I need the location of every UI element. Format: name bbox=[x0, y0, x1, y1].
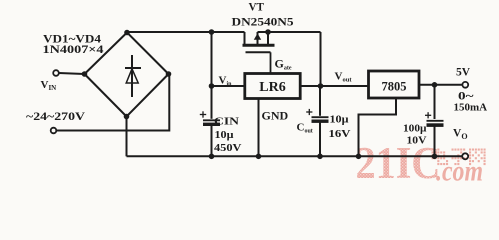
svg-text:1N4007×4: 1N4007×4 bbox=[43, 44, 104, 56]
svg-text:10μ: 10μ bbox=[330, 114, 350, 126]
terminal Vin upper bbox=[53, 70, 59, 76]
svg-text:DN2540N5: DN2540N5 bbox=[232, 17, 294, 29]
node Vout bbox=[318, 83, 324, 89]
node left vertex bbox=[82, 71, 88, 77]
svg-text:7805: 7805 bbox=[382, 80, 407, 94]
diode symbol inside bridge bbox=[125, 55, 141, 97]
svg-text:VT: VT bbox=[249, 2, 265, 14]
node right vertex bbox=[166, 71, 172, 77]
node bottom vertex bbox=[124, 114, 130, 120]
svg-text:10μ: 10μ bbox=[215, 129, 235, 141]
terminal output V0 bbox=[462, 153, 468, 159]
op-amp/regulator U1 LR6 box bbox=[245, 74, 300, 99]
wire bridge negative drop bbox=[126, 117, 128, 157]
watermark 21IC bbox=[356, 138, 441, 188]
wire top rail left bbox=[127, 31, 245, 33]
wire ground bus bbox=[127, 155, 463, 157]
watermark .com bbox=[436, 155, 483, 188]
node gnd LR6 bbox=[256, 154, 262, 160]
wire CIN vertical lower bbox=[211, 126, 213, 157]
node gnd 7805 bbox=[356, 154, 362, 160]
svg-text:16V: 16V bbox=[329, 128, 351, 140]
svg-text:21IC: 21IC bbox=[356, 138, 441, 188]
node mosfet right bbox=[265, 29, 271, 35]
wire Vin pin bbox=[212, 85, 245, 87]
wire 100u vertical upper bbox=[434, 85, 436, 119]
wire upper input bbox=[59, 73, 85, 74]
wire 7805 output bbox=[419, 84, 462, 86]
node gnd 100u bbox=[432, 154, 438, 160]
node top vertex bbox=[124, 30, 130, 36]
capacitor Cout bbox=[306, 109, 328, 123]
wire Cout vertical lower bbox=[319, 123, 321, 157]
node gnd CIN bbox=[209, 154, 215, 160]
svg-text:150mA: 150mA bbox=[454, 102, 488, 114]
terminal lower input bbox=[51, 128, 57, 134]
svg-text:GND: GND bbox=[262, 109, 289, 123]
svg-text:CIN: CIN bbox=[214, 116, 239, 128]
wire Cout vertical upper bbox=[319, 86, 321, 116]
node Vin pin bbox=[209, 83, 215, 89]
wire Vout drop bbox=[320, 32, 322, 86]
transistor VT DN2540N5 bbox=[243, 32, 275, 74]
node gnd Cout bbox=[317, 154, 323, 160]
node output cap bbox=[432, 82, 438, 88]
wire Vout bbox=[300, 85, 368, 87]
svg-text:100μ: 100μ bbox=[403, 123, 427, 135]
svg-text:~24~270V: ~24~270V bbox=[26, 111, 86, 123]
node rail to CIN bbox=[209, 29, 215, 35]
terminal output 5V bbox=[462, 82, 468, 88]
watermark char wang bbox=[469, 149, 486, 166]
wire lower input bbox=[56, 74, 169, 131]
wire LR6 GND pin bbox=[258, 99, 260, 157]
svg-text:450V: 450V bbox=[214, 142, 242, 154]
wire rail to Vout drop bbox=[258, 31, 321, 33]
svg-text:5V: 5V bbox=[456, 67, 471, 79]
svg-text:LR6: LR6 bbox=[259, 80, 285, 95]
bridge rectifier VD1~VD4 diamond bbox=[85, 33, 169, 117]
wire CIN vertical upper bbox=[211, 32, 213, 119]
svg-text:10V: 10V bbox=[407, 135, 427, 147]
watermark char zi bbox=[452, 149, 469, 166]
watermark char dian bbox=[432, 149, 449, 166]
capacitor 100u bbox=[425, 112, 444, 127]
capacitor CIN bbox=[200, 111, 220, 126]
regulator 7805 box bbox=[369, 71, 420, 98]
svg-text:.com: .com bbox=[436, 155, 483, 188]
wire 7805 ground path bbox=[359, 98, 397, 156]
wire 100u vertical lower bbox=[434, 127, 436, 157]
